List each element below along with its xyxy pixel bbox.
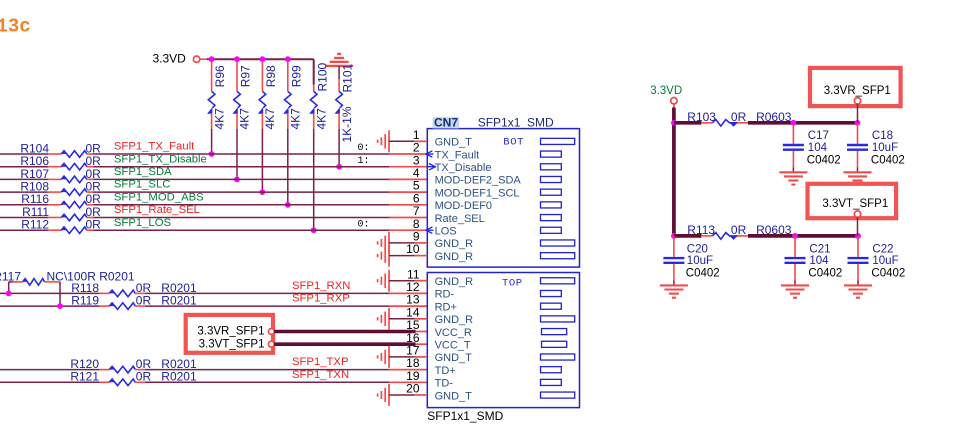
svg-text:MOD-DEF2_SDA: MOD-DEF2_SDA [435,175,522,187]
resistor R113 0R R0603 [674,234,702,238]
svg-text:1K-1%: 1K-1% [340,106,354,142]
junction cap at 857.5 [855,120,861,126]
resistor R97 [236,61,238,91]
resistor R98 [261,61,263,91]
wire R100 to row [313,129,315,230]
svg-text:SFP1_MOD_ABS: SFP1_MOD_ABS [114,191,204,203]
pin wire SFP1_TXP to connector [389,369,427,371]
svg-text:R100: R100 [315,62,329,91]
svg-text:GND_T: GND_T [435,390,473,402]
pin wire SFP1_TX_Fault to connector [389,153,427,155]
svg-text:C0402: C0402 [808,268,842,280]
junction 3.3VD / R103 [671,120,677,126]
svg-text:SFP1_TXN: SFP1_TXN [292,369,349,381]
pin wire SFP1_RXP to connector [389,305,427,307]
pin wire pin 14 [389,318,415,320]
svg-text:R112: R112 [21,218,49,232]
svg-text:TX_Fault: TX_Fault [435,149,480,161]
svg-text:GND_R: GND_R [435,238,474,250]
junction R98 on row [260,189,266,195]
wire 3.3VD stub [200,58,208,60]
arrow pin 2 input [426,151,432,157]
junction R96 on row [209,151,215,157]
svg-text:C0402: C0402 [871,155,905,167]
wire net SFP1_TX_Fault [0,153,49,155]
svg-text:10uF: 10uF [872,255,898,267]
wire net SFP1_TXN [0,381,100,383]
svg-text:TD-: TD- [435,378,454,390]
svg-text:4K7: 4K7 [263,108,277,130]
svg-text:SFP1_Rate_SEL: SFP1_Rate_SEL [114,204,200,216]
ground under C21 [781,284,809,286]
svg-text:C0402: C0402 [807,155,841,167]
svg-text:3.3VD: 3.3VD [650,85,682,97]
wire net SFP1_TX_Disable [0,166,49,168]
ground under C22 [844,284,872,286]
resistor R100 [313,85,315,92]
ground at pin 11 [388,270,390,292]
pin wire SFP1_Rate_SEL to connector [389,217,427,219]
svg-text:SFP1_SLC: SFP1_SLC [114,179,171,191]
svg-text:Rate_SEL: Rate_SEL [435,213,485,225]
wire R103 output thick [748,121,858,125]
resistor R112 0R [48,229,61,231]
svg-text:R99: R99 [289,65,303,87]
wire R96 to row [211,129,213,154]
pin wire pin 17 [389,356,415,358]
svg-text:SFP1_TXP: SFP1_TXP [292,356,349,368]
pin wire pin 11 [389,280,415,282]
svg-text:3.3VR_SFP1: 3.3VR_SFP1 [824,85,891,97]
svg-text:C18: C18 [872,130,893,142]
svg-text:0R: 0R [136,294,152,308]
pin wire SFP1_TX_Disable to connector [389,166,427,168]
ground above R101 (flipped) [325,65,353,67]
wire net SFP1_SLC [0,191,49,193]
junction on 3.3VD rail [285,56,291,62]
junction R101 on row [336,164,342,170]
svg-text:GND_R: GND_R [435,314,474,326]
svg-text:SFP1_SDA: SFP1_SDA [114,166,172,178]
resistor R107 0R [48,178,61,180]
resistor R117 NC\100R bridge [8,282,10,294]
ground under C17 [779,171,807,173]
svg-text:RD-: RD- [435,289,455,301]
junction R117 left on RXN [6,291,12,297]
svg-text:3.3VT_SFP1: 3.3VT_SFP1 [822,198,888,210]
pin wire SFP1_LOS to connector [389,229,427,231]
wire port VT to rail [857,217,859,236]
svg-text:4K7: 4K7 [212,108,226,130]
svg-text:GND_T: GND_T [435,137,473,149]
wire R97 to row [236,129,238,179]
wire net SFP1_MOD_ABS [0,204,49,206]
wire net SFP1_RXN [0,292,100,294]
pin wire SFP1_RXN to connector [389,292,427,294]
arrow pin 8 input [426,227,432,233]
refdes CN7 [433,117,460,128]
ground at pin 1 [388,130,390,152]
resistor R116 0R [48,204,61,206]
resistor R99 [287,61,289,91]
svg-text:R96: R96 [213,65,227,87]
wire ground to R101 [338,66,340,79]
port pin 3.3VR_SFP1 [268,329,274,335]
svg-text:C17: C17 [808,130,829,142]
svg-text:4K7: 4K7 [289,108,303,130]
svg-text:0R: 0R [136,370,152,384]
svg-text:C20: C20 [687,243,708,255]
svg-text:SFP1_RXP: SFP1_RXP [292,293,350,305]
ground at pin 20 [388,384,390,406]
svg-text:20: 20 [406,382,420,396]
ground at pin 17 [388,346,390,368]
wire R99 to row [287,129,289,205]
pin wire pin 1 [389,140,415,142]
junction on 3.3VD rail [260,56,266,62]
port 3.3VT_SFP1 (right) [808,184,897,218]
capacitor C18 10uF C0402 [857,123,859,144]
svg-text:4K7: 4K7 [314,108,328,130]
svg-text:R117: R117 [0,269,21,283]
junction R97 on row [234,177,240,183]
wire 3.3VD rail [207,58,314,60]
svg-text:GND_T: GND_T [435,352,473,364]
wire net SFP1_LOS [0,229,49,231]
arrow pin 3 output [429,164,435,170]
svg-text:VCC_T: VCC_T [435,340,471,352]
junction cap at 858.0 [855,233,861,239]
svg-text:10uF: 10uF [687,255,713,267]
ground under C18 [844,171,872,173]
svg-text:3.3VD: 3.3VD [153,52,187,66]
wire net SFP1_Rate_SEL [0,217,49,219]
svg-text:1:: 1: [358,156,370,167]
svg-text:0R: 0R [731,110,747,124]
wire VCC_R thick [274,330,415,334]
svg-text:SFP1x1_SMD: SFP1x1_SMD [427,409,503,423]
svg-text:R103: R103 [687,110,716,124]
svg-text:SFP1_LOS: SFP1_LOS [114,217,172,229]
resistor R121 0R R0201 [99,381,109,383]
svg-text:0R: 0R [86,218,102,232]
capacitor C20 10uF C0402 [673,236,675,257]
junction cap at 795.0 [792,233,798,239]
svg-text:R97: R97 [239,65,253,87]
pin wire pin 9 [389,242,415,244]
svg-text:R0201: R0201 [161,294,197,308]
ground at pin 14 [388,308,390,330]
resistor R103 0R R0603 [674,121,702,125]
svg-text:SFP1x1_SMD: SFP1x1_SMD [478,116,554,130]
svg-text:0:: 0: [358,143,370,154]
svg-text:GND_R: GND_R [435,251,474,263]
wire 3.3VD down stub [673,104,675,109]
svg-text:R0201: R0201 [161,370,197,384]
pin wire SFP1_SDA to connector [389,178,427,180]
svg-text:R121: R121 [70,370,99,384]
wire net SFP1_SDA [0,178,49,180]
svg-text:C21: C21 [809,243,830,255]
svg-text:10: 10 [406,242,420,256]
svg-text:RD+: RD+ [435,301,457,313]
resistor R108 0R [48,191,61,193]
svg-text:TD+: TD+ [435,365,456,377]
junction R100 on row [311,227,317,233]
resistor R101 [338,79,340,91]
capacitor C22 10uF C0402 [857,236,859,257]
ground at pin 9 [388,232,390,254]
svg-text:TOP: TOP [502,277,523,289]
wire R113 output thick [748,234,858,238]
svg-text:R113: R113 [687,223,715,237]
svg-text:104: 104 [808,142,828,154]
resistor R119 0R R0201 [99,305,109,307]
connector CN7 SFP1x1_SMD box BOT [427,129,579,268]
svg-text:R119: R119 [71,294,99,308]
port pin 3.3VT_SFP1 [268,341,274,347]
wire net SFP1_TXP [0,369,100,371]
svg-text:SFP1_RXN: SFP1_RXN [292,280,350,292]
capacitor C17 104 C0402 [792,123,794,144]
svg-text:4K7: 4K7 [238,108,252,130]
svg-text:C0402: C0402 [871,268,905,280]
svg-text:LOS: LOS [435,226,457,238]
capacitor C21 104 C0402 [794,236,796,257]
wire VCC_T thick [274,342,415,346]
pin wire SFP1_MOD_ABS to connector [389,204,427,206]
svg-text:MOD-DEF0: MOD-DEF0 [435,200,492,212]
svg-text:GND_R: GND_R [435,276,474,288]
port box 3.3VR_SFP1 3.3VT_SFP1 [186,315,273,353]
port 3.3VR_SFP1 (right) [810,68,901,106]
svg-text:C0402: C0402 [686,268,720,280]
pin wire SFP1_TXN to connector [389,381,427,383]
junction cap at 793.4 [791,120,797,126]
svg-text:R101: R101 [341,63,355,92]
svg-text:SFP1_TX_Disable: SFP1_TX_Disable [114,153,207,165]
wire R98 to row [261,129,263,192]
ground at pin 10 [388,245,390,267]
wire R101 to row [338,129,340,167]
svg-text:TX_Disable: TX_Disable [435,162,492,174]
svg-text:NC\100R R0201: NC\100R R0201 [47,269,135,283]
junction R117 right on RXP [57,303,63,309]
wire net SFP1_RXP [0,305,100,307]
resistor R106 0R [48,166,61,168]
svg-text:CN7: CN7 [434,116,458,130]
svg-text:13c: 13c [0,16,31,38]
pin wire SFP1_SLC to connector [389,191,427,193]
junction on 3.3VD rail [234,56,240,62]
wire 3.3VD vertical thick [672,108,676,236]
resistor R96 [211,61,213,91]
svg-text:3.3VR_SFP1: 3.3VR_SFP1 [197,326,264,338]
resistor R118 0R R0201 [99,292,109,294]
svg-text:BOT: BOT [503,137,524,149]
svg-text:104: 104 [809,255,829,267]
svg-text:3.3VT_SFP1: 3.3VT_SFP1 [199,339,265,351]
resistor R104 0R [48,153,61,155]
svg-text:MOD-DEF1_SCL: MOD-DEF1_SCL [435,187,520,199]
svg-text:0R: 0R [731,223,747,237]
junction 3.3VD / R113 [671,233,677,239]
svg-text:SFP1_TX_Fault: SFP1_TX_Fault [114,141,195,153]
svg-text:VCC_R: VCC_R [435,327,472,339]
ground under C20 [660,284,688,286]
svg-text:R98: R98 [264,65,278,87]
junction on 3.3VD rail [209,56,215,62]
resistor R111 0R [48,217,61,219]
resistor R120 0R R0201 [99,369,109,371]
pin wire pin 10 [389,255,415,257]
svg-text:0:: 0: [358,219,370,230]
pin wire pin 20 [389,394,415,396]
junction R99 on row [285,202,291,208]
wire port VR to rail [857,104,859,123]
connector CN7 box TOP [427,273,579,408]
svg-text:C22: C22 [872,243,893,255]
svg-text:10uF: 10uF [872,142,898,154]
